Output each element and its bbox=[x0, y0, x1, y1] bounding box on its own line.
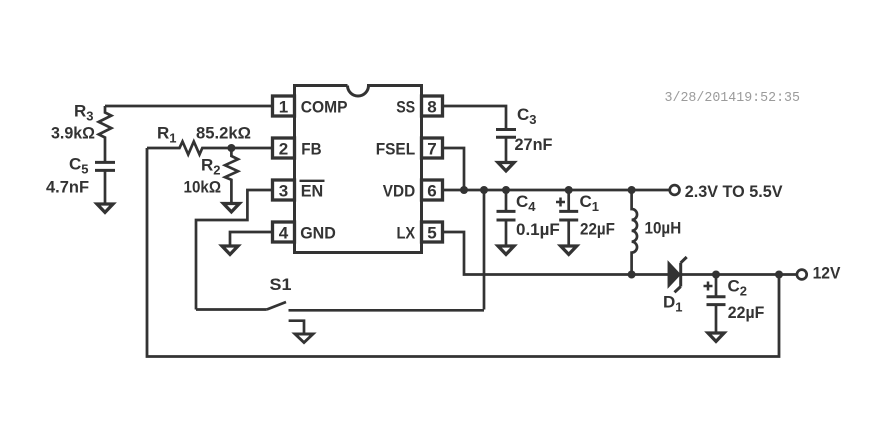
ground below C3 bbox=[498, 163, 514, 171]
capacitor C2 polarized bbox=[712, 271, 720, 279]
terminal 12V bbox=[797, 270, 807, 280]
capacitor C5 bbox=[95, 162, 115, 170]
pin 2 box bbox=[273, 138, 295, 158]
svg-text:S1: S1 bbox=[270, 275, 292, 294]
ground below C2 bbox=[708, 333, 724, 341]
capacitor C3 bbox=[496, 130, 516, 138]
node S1 junction bbox=[480, 186, 488, 194]
plus sign C1 bbox=[556, 198, 565, 207]
resistor R3 bbox=[99, 106, 112, 162]
svg-text:2: 2 bbox=[279, 139, 288, 158]
svg-text:27nF: 27nF bbox=[515, 135, 553, 154]
svg-text:5: 5 bbox=[427, 223, 436, 242]
pin 4 box bbox=[273, 222, 295, 242]
wire pin7 FSEL down to VDD rail bbox=[443, 148, 465, 190]
svg-text:7: 7 bbox=[427, 139, 436, 158]
svg-text:85.2kΩ: 85.2kΩ bbox=[196, 124, 251, 143]
ground below R2 bbox=[223, 204, 239, 212]
svg-text:10µH: 10µH bbox=[645, 219, 682, 238]
svg-text:12V: 12V bbox=[813, 264, 841, 283]
pin 8 box bbox=[422, 96, 443, 116]
capacitor C1 polarized bbox=[567, 190, 570, 211]
ground stub at S1 bbox=[289, 321, 304, 334]
IC U1 body with pin-1 notch bbox=[295, 86, 422, 253]
wire pin3 EN to switch S1 bbox=[196, 190, 273, 310]
node C1 junction bbox=[565, 186, 573, 194]
resistor R1 bbox=[147, 142, 273, 155]
svg-text:LX: LX bbox=[397, 224, 416, 243]
pin 7 box bbox=[422, 138, 443, 158]
wire pin8 SS to C3 bbox=[443, 106, 507, 130]
capacitor C4 bbox=[505, 190, 508, 211]
svg-text:EN: EN bbox=[301, 182, 324, 201]
inductor L1 10uH bbox=[632, 190, 637, 275]
pin 1 box bbox=[273, 96, 295, 116]
svg-text:4.7nF: 4.7nF bbox=[46, 178, 89, 197]
pin 6 box bbox=[422, 180, 443, 200]
svg-text:1: 1 bbox=[279, 97, 288, 116]
svg-text:COMP: COMP bbox=[301, 98, 348, 117]
svg-text:FSEL: FSEL bbox=[376, 140, 416, 159]
switch S1 left contact bbox=[196, 308, 267, 311]
svg-text:10kΩ: 10kΩ bbox=[184, 178, 222, 197]
ground below C5 bbox=[97, 204, 113, 212]
ground below C1 bbox=[561, 246, 577, 254]
switch S1 lever bbox=[267, 302, 286, 310]
pin 3 box bbox=[273, 180, 295, 200]
resistor R2 bbox=[225, 148, 238, 204]
wire VDD rail bbox=[443, 189, 670, 192]
svg-text:3.9kΩ: 3.9kΩ bbox=[51, 124, 95, 143]
pin 5 box bbox=[422, 222, 443, 242]
wire feedback: R1 left down, bottom rail, up to 12V rail bbox=[147, 148, 779, 357]
wire pin5 LX down and right to 12V bbox=[443, 232, 797, 275]
wire pin4 GND bbox=[230, 232, 273, 246]
node pin7 junction bbox=[460, 186, 468, 194]
svg-text:6: 6 bbox=[427, 181, 436, 200]
svg-text:4: 4 bbox=[279, 223, 289, 242]
svg-text:22µF: 22µF bbox=[580, 220, 615, 239]
svg-text:VDD: VDD bbox=[383, 182, 415, 201]
terminal 2.3V TO 5.5V bbox=[670, 185, 680, 195]
wire C3 to ground bbox=[505, 137, 508, 162]
svg-text:FB: FB bbox=[301, 140, 321, 159]
svg-text:3: 3 bbox=[279, 181, 288, 200]
node C4 junction bbox=[502, 186, 510, 194]
diode D1 bbox=[668, 262, 680, 287]
ground below C4 bbox=[498, 246, 514, 254]
svg-text:SS: SS bbox=[396, 98, 415, 117]
node 12V return junction bbox=[775, 271, 783, 279]
svg-text:GND: GND bbox=[300, 224, 336, 243]
wire C5 to ground bbox=[104, 170, 107, 204]
node L1 top junction bbox=[628, 186, 636, 194]
wire S1 right side up to VDD rail bbox=[483, 190, 486, 310]
plus sign C2 bbox=[704, 282, 713, 291]
svg-text:3/28/201419:52:35: 3/28/201419:52:35 bbox=[665, 90, 801, 106]
node FB junction dot bbox=[227, 144, 235, 152]
svg-text:8: 8 bbox=[427, 97, 436, 116]
svg-text:0.1µF: 0.1µF bbox=[516, 220, 560, 239]
svg-text:2.3V TO 5.5V: 2.3V TO 5.5V bbox=[685, 182, 783, 201]
node L1 bottom junction bbox=[628, 271, 636, 279]
switch S1 right contact bbox=[289, 309, 485, 312]
svg-text:22µF: 22µF bbox=[728, 303, 765, 322]
ground at pin4 bbox=[222, 246, 238, 254]
wire pin1 COMP to R3 top bbox=[105, 105, 273, 108]
